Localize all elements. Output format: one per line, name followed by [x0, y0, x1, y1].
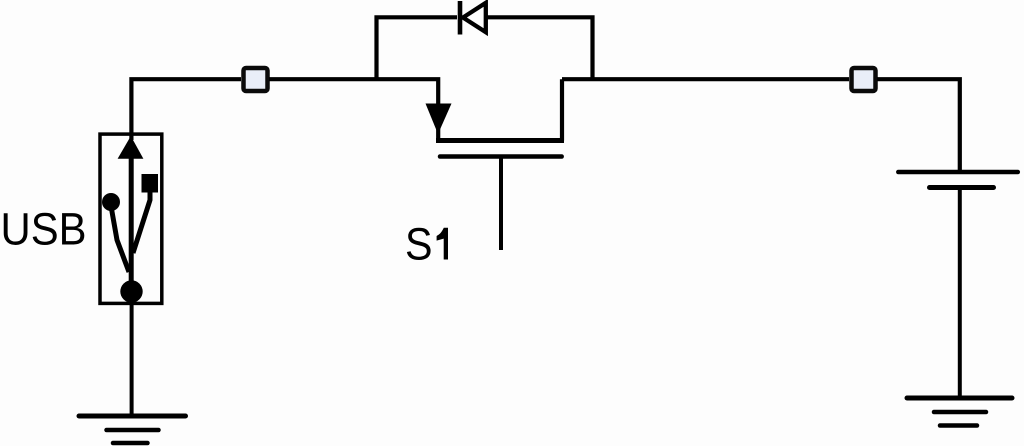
wire: junction pad to battery positive [877, 79, 960, 170]
USB trident arrow [118, 136, 144, 159]
ground (right) [907, 398, 1012, 426]
wire: S1 source to junction pad (right) [562, 77, 849, 81]
USB trident left circle [102, 193, 120, 211]
USB trident bottom circle [120, 280, 142, 302]
USB trident right branch [133, 190, 150, 253]
diode D1 cathode bar [458, 1, 463, 35]
diode D1 triangle [463, 3, 486, 32]
junction pad (left) [244, 68, 268, 91]
wire: diode loop left riser [377, 17, 458, 79]
battery BT1 positive plate [898, 170, 1018, 175]
battery BT1 negative plate [930, 185, 994, 190]
USB connector body [100, 134, 162, 303]
ground (left) [79, 416, 186, 443]
wire: diode loop right riser [486, 17, 593, 79]
wire: USB bottom lead to ground (left) [130, 296, 134, 416]
transistor S1 channel bar [436, 138, 564, 143]
USB trident stem [129, 155, 134, 284]
wire: battery negative to ground (right) [958, 188, 962, 398]
wire: junction pad to S1 drain [269, 79, 438, 140]
transistor S1 drain arrow [426, 104, 452, 135]
transistor S1 gate bar [440, 154, 562, 159]
transistor S1 source lead [560, 79, 564, 140]
wire: USB top lead up and right to junction pad [131, 79, 241, 140]
USB trident right square [142, 174, 159, 193]
svg-text:S: S [405, 219, 433, 270]
junction pad (right) [852, 68, 876, 91]
svg-text:USB: USB [1, 204, 87, 255]
transistor S1 gate lead [499, 157, 503, 251]
USB trident left branch [111, 206, 129, 272]
label S1 [405, 219, 448, 270]
